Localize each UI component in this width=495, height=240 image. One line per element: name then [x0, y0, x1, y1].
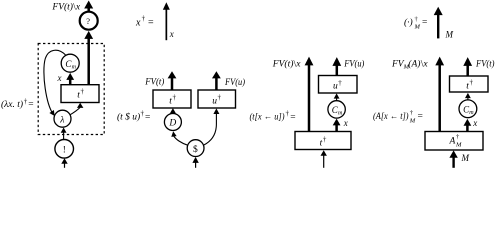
svg-text:u: u — [212, 96, 217, 106]
wire: thick x arrow from box t-dagger into C_m — [66, 73, 74, 85]
wire: thick x arrow from t-dagger box into C_m (diagram 4) — [333, 119, 341, 132]
wire: tall thick arrow FV(t)\x (diagram 4) — [305, 57, 314, 132]
wire: curve from C_m around to λ with arrowhead — [44, 50, 66, 117]
svg-text:x: x — [343, 118, 348, 128]
wire: thick arrow above t-dagger (diagram 5) — [463, 57, 472, 76]
wire: bottom input arrow into t-dagger box (diagram 4) — [321, 150, 327, 168]
svg-text:(t[x ← u]): (t[x ← u]) — [250, 111, 285, 122]
box t-dagger (diagram 3) — [153, 90, 191, 108]
label (t $ u)† = — [117, 110, 150, 123]
svg-text:$: $ — [193, 144, 198, 155]
svg-text:†: † — [323, 136, 327, 144]
label FV_M(A)\x — [391, 58, 428, 70]
wire: thick output arrow above ? — [84, 1, 93, 13]
svg-text:!: ! — [63, 146, 66, 156]
node C_m (diagram 4) — [328, 101, 345, 118]
box t-dagger (diagram 4) — [295, 132, 351, 150]
svg-text:(t $ u): (t $ u) — [117, 111, 140, 122]
label (·)†_M = — [404, 16, 427, 31]
wire: $ to D curve with arrowhead — [171, 131, 188, 145]
label FV(t)\x — [51, 2, 81, 13]
svg-text:D: D — [168, 119, 176, 129]
svg-text:M: M — [445, 30, 454, 40]
svg-text:FV(u): FV(u) — [343, 58, 364, 69]
box t-dagger (diagram 1) — [61, 85, 99, 103]
wire: thick x arrow from A box into C_m (diagram 5) — [464, 119, 472, 132]
svg-text:†: † — [81, 88, 85, 96]
label (λx. t)† = — [1, 98, 34, 111]
box t-dagger (diagram 5) — [450, 76, 489, 92]
svg-text:u: u — [333, 82, 338, 92]
dashed box — [38, 44, 104, 135]
svg-text:M: M — [414, 24, 421, 31]
wire: thick arrow above u-dagger box — [212, 71, 221, 90]
svg-text:†: † — [338, 79, 342, 87]
svg-text:(·): (·) — [404, 17, 413, 28]
svg-text:FV(u): FV(u) — [224, 77, 245, 88]
node D — [164, 114, 181, 131]
svg-text:=: = — [145, 112, 150, 122]
svg-text:m: m — [469, 110, 474, 116]
wire: C_m to t-dagger box arrow (diagram 5) — [465, 93, 471, 100]
svg-text:†: † — [24, 98, 28, 106]
svg-text:†: † — [173, 94, 177, 102]
label (t[x ← u])† = — [250, 110, 296, 123]
svg-text:†: † — [410, 110, 414, 117]
wire: bottom input arrow into $ — [192, 157, 198, 168]
svg-text:†: † — [142, 15, 146, 23]
wire: thick arrow above u-dagger (diagram 4) — [332, 57, 341, 75]
svg-text:=: = — [148, 17, 154, 28]
svg-text:(A): (A) — [408, 58, 420, 69]
node C_m (copy) — [61, 54, 79, 72]
svg-text:†: † — [218, 94, 222, 102]
wire: $ to u-dagger curve with arrowhead — [204, 108, 220, 145]
label (A[x ← t])†_M = — [373, 110, 423, 125]
svg-text:FV(t): FV(t) — [272, 59, 294, 70]
label FV(t)\x (diagram 4) — [272, 59, 302, 70]
svg-text:(λx. t): (λx. t) — [1, 99, 23, 110]
svg-text:x: x — [295, 60, 301, 70]
svg-text:†: † — [470, 79, 474, 87]
svg-text:x: x — [422, 59, 428, 69]
node $ — [187, 140, 204, 157]
svg-text:M: M — [409, 118, 416, 125]
wire: M arrow (top right) — [434, 7, 443, 39]
node ? (thick circle) — [80, 12, 98, 30]
wire: C_m to u-dagger box arrow (diagram 4) — [334, 93, 340, 100]
wire: thick arrow from box t-dagger top into ? — [84, 31, 93, 85]
wire: thick M arrow into A box — [449, 150, 457, 167]
svg-text:FV(t): FV(t) — [144, 76, 164, 87]
wire: x arrow — [163, 2, 170, 40]
svg-text:=: = — [418, 112, 423, 122]
box u-dagger (diagram 4) — [319, 76, 358, 94]
svg-text:x: x — [135, 17, 141, 28]
svg-text:†: † — [415, 16, 419, 23]
svg-text:=: = — [290, 112, 295, 122]
svg-text:†: † — [456, 134, 460, 141]
box A-dagger-M — [425, 132, 483, 151]
label x† = — [135, 15, 154, 29]
svg-text:?: ? — [86, 16, 90, 26]
node C_m (diagram 5) — [459, 100, 477, 118]
svg-text:x: x — [57, 73, 62, 83]
svg-text:M: M — [455, 141, 462, 148]
svg-text:x: x — [75, 3, 81, 13]
svg-text:†: † — [141, 110, 145, 118]
svg-text:(A[x ← t]): (A[x ← t]) — [373, 111, 409, 122]
svg-text:m: m — [72, 64, 77, 70]
wire: tall thick arrow FV_M(A)\x — [435, 57, 444, 132]
wire: thick arrow above t-dagger box — [168, 71, 177, 90]
wire: λ to box t-dagger with arrowhead — [70, 103, 83, 115]
svg-text:x: x — [169, 29, 174, 39]
svg-text:m: m — [338, 111, 343, 117]
svg-text:FV(t): FV(t) — [51, 2, 73, 13]
svg-text:M: M — [461, 153, 470, 163]
svg-text:A: A — [449, 137, 456, 147]
wire: bottom input arrow into ! — [61, 158, 67, 168]
svg-text:λ: λ — [59, 115, 64, 125]
node ! (bang) — [55, 140, 74, 159]
svg-text:†: † — [286, 110, 290, 118]
svg-text:=: = — [28, 100, 33, 110]
svg-text:x: x — [472, 118, 477, 128]
svg-text:FV(t): FV(t) — [475, 58, 494, 69]
svg-text:=: = — [422, 18, 427, 28]
node λ — [54, 110, 71, 127]
wire: ! to λ with arrowhead — [61, 128, 67, 140]
wire: D to box t-dagger arrowhead — [170, 108, 176, 113]
box u-dagger (diagram 3) — [198, 90, 236, 108]
